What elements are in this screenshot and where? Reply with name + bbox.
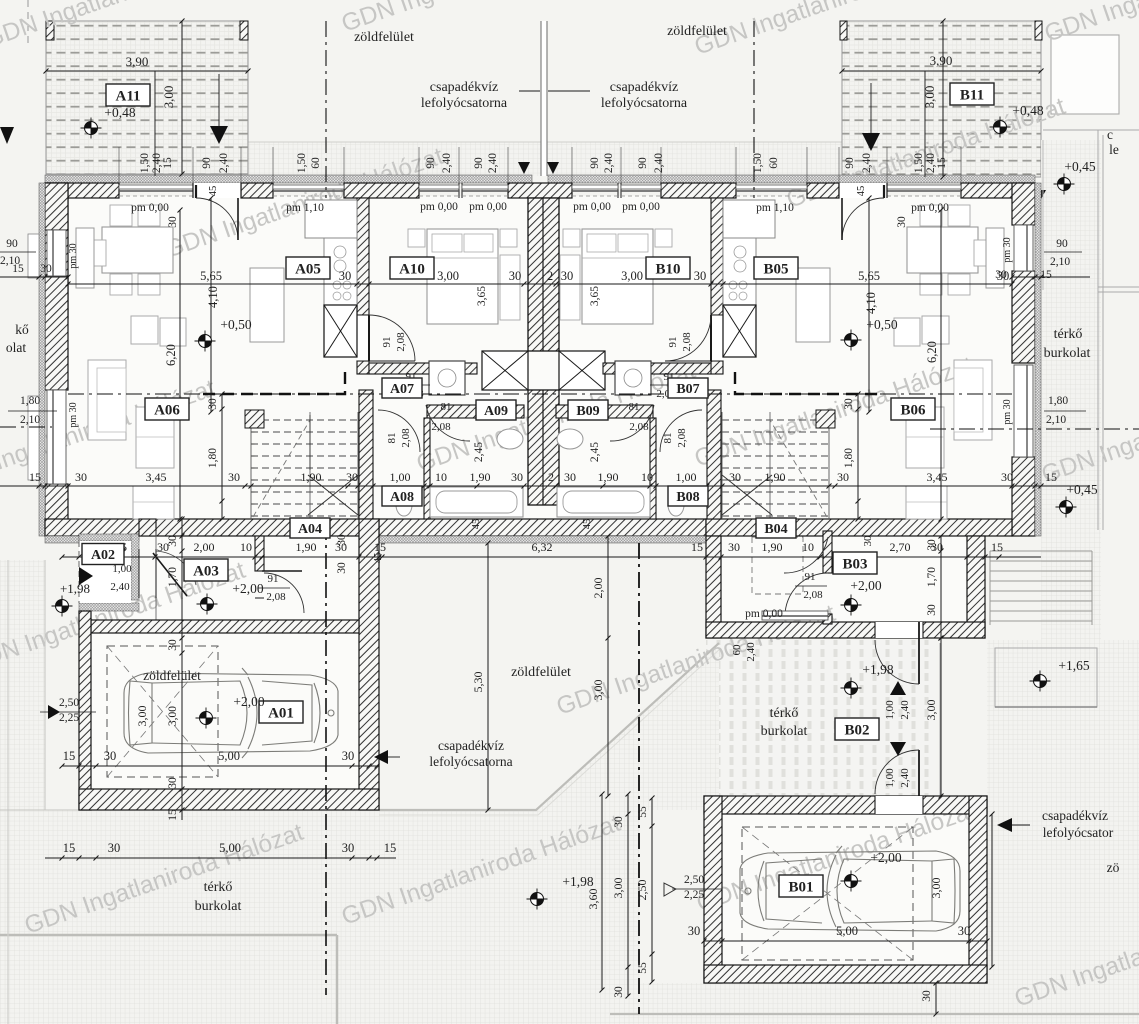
svg-text:3,65: 3,65 xyxy=(476,286,488,306)
svg-text:30: 30 xyxy=(108,841,121,855)
bathtub B09 xyxy=(557,487,650,517)
stairs cross B xyxy=(722,475,772,515)
paving between wings lower xyxy=(380,643,719,810)
garage B01 door top xyxy=(875,796,923,814)
svg-text:30: 30 xyxy=(958,924,971,938)
bottom right edge line xyxy=(610,1013,1139,1015)
dim vertical x=488 5,30 xyxy=(487,543,489,810)
kitchen wall B05 xyxy=(711,198,723,315)
svg-text:1,90: 1,90 xyxy=(762,540,783,554)
svg-text:+0,45: +0,45 xyxy=(1066,482,1097,497)
svg-text:90: 90 xyxy=(637,157,649,169)
marker A01 xyxy=(196,708,217,729)
window W8 B06 top xyxy=(887,185,961,189)
bottom paving area xyxy=(0,810,640,1024)
marker A03 xyxy=(197,594,218,615)
garage B01 canopy dashed xyxy=(742,827,913,960)
svg-text:A04: A04 xyxy=(298,522,322,537)
room label B10 xyxy=(646,257,690,279)
svg-text:81: 81 xyxy=(629,401,640,413)
room label A08 xyxy=(382,486,422,506)
svg-text:zöldfelület: zöldfelület xyxy=(143,668,201,683)
svg-text:3,45: 3,45 xyxy=(146,470,167,484)
marker B02 xyxy=(841,678,862,699)
svg-text:2,40: 2,40 xyxy=(899,700,911,720)
leader csapadekviz A xyxy=(519,90,540,92)
svg-text:30: 30 xyxy=(167,639,179,651)
kitchen counter B05 xyxy=(723,200,775,238)
svg-text:+0,50: +0,50 xyxy=(866,317,897,332)
room label A02 xyxy=(82,544,124,565)
svg-text:30: 30 xyxy=(40,263,52,275)
svg-text:2,08: 2,08 xyxy=(629,421,649,433)
dining table B06 xyxy=(907,227,978,273)
marker center bottom xyxy=(527,889,548,910)
window W4 A10 top xyxy=(462,185,508,189)
svg-text:91: 91 xyxy=(667,337,679,348)
svg-text:2,08: 2,08 xyxy=(400,428,412,448)
svg-text:3,00: 3,00 xyxy=(135,706,149,727)
svg-text:lefolyócsatorna: lefolyócsatorna xyxy=(429,754,512,769)
svg-text:30: 30 xyxy=(167,535,179,547)
door A09 xyxy=(426,405,470,441)
svg-text:1,80: 1,80 xyxy=(20,395,40,407)
wall A03 left jamb xyxy=(139,519,156,536)
svg-text:30: 30 xyxy=(694,269,707,283)
svg-text:2,10: 2,10 xyxy=(20,414,40,426)
svg-text:15: 15 xyxy=(1040,269,1052,281)
svg-text:csapadékvíz: csapadékvíz xyxy=(610,80,678,95)
garage B01 walls xyxy=(704,796,987,814)
svg-text:2,40: 2,40 xyxy=(899,768,911,788)
sideboard A xyxy=(250,268,284,342)
B02 path texture xyxy=(706,640,936,796)
svg-text:5,00: 5,00 xyxy=(219,841,241,855)
svg-text:B04: B04 xyxy=(764,522,787,537)
svg-text:pm 0,00: pm 0,00 xyxy=(911,202,949,214)
B03 bottom wall xyxy=(706,622,985,638)
svg-text:+0,48: +0,48 xyxy=(1012,103,1043,118)
svg-text:1,90: 1,90 xyxy=(301,470,322,484)
svg-text:30: 30 xyxy=(339,269,352,283)
bed A10 xyxy=(427,229,498,324)
svg-text:90: 90 xyxy=(6,238,18,250)
marker terrace 165 xyxy=(1030,671,1051,692)
wing B03 interior xyxy=(718,533,970,625)
left edge vertical line xyxy=(7,560,9,1024)
svg-text:15: 15 xyxy=(374,540,386,554)
room label B07 xyxy=(668,378,708,398)
svg-text:30: 30 xyxy=(564,470,576,484)
bathtub A09 xyxy=(430,487,523,517)
garage A top wall xyxy=(91,620,359,633)
svg-text:15: 15 xyxy=(1045,470,1057,484)
svg-text:15: 15 xyxy=(162,157,174,169)
room label A10 xyxy=(390,257,434,279)
svg-text:90: 90 xyxy=(473,157,485,169)
svg-text:3,65: 3,65 xyxy=(589,286,601,306)
top wall window dim vlines xyxy=(118,147,120,183)
svg-text:térkő: térkő xyxy=(770,706,799,721)
corner spout triangle right xyxy=(1034,190,1046,201)
svg-text:B08: B08 xyxy=(676,490,699,505)
B03 left wall xyxy=(706,536,721,638)
svg-text:3,00: 3,00 xyxy=(161,86,176,109)
svg-text:1,80: 1,80 xyxy=(843,448,855,468)
svg-text:2,45: 2,45 xyxy=(473,442,485,462)
svg-text:A06: A06 xyxy=(154,402,180,418)
dim garage A y=858 xyxy=(45,857,396,859)
svg-text:30: 30 xyxy=(613,986,625,998)
svg-text:pm 30: pm 30 xyxy=(1002,399,1013,424)
pillar B xyxy=(816,410,835,428)
stair arrow line A xyxy=(309,415,311,470)
wardrobe B03 dashed xyxy=(752,537,803,594)
svg-text:pm 1,10: pm 1,10 xyxy=(756,202,794,214)
svg-text:lefolyócsatorna: lefolyócsatorna xyxy=(421,96,508,111)
svg-text:30: 30 xyxy=(509,269,522,283)
right boundary lines xyxy=(1042,140,1044,290)
svg-text:45: 45 xyxy=(471,519,482,530)
B03 partition xyxy=(823,531,832,573)
svg-text:2,00: 2,00 xyxy=(194,540,215,554)
door A08 xyxy=(378,410,420,452)
svg-text:90: 90 xyxy=(844,157,856,169)
svg-text:+0,48: +0,48 xyxy=(104,105,135,120)
dim chain y=557 xyxy=(62,556,1041,558)
svg-text:15: 15 xyxy=(991,540,1003,554)
svg-text:+2,00: +2,00 xyxy=(870,850,901,865)
svg-text:B06: B06 xyxy=(900,402,926,418)
marker B living xyxy=(841,330,862,351)
svg-text:91: 91 xyxy=(268,573,279,585)
svg-text:2,70: 2,70 xyxy=(890,540,911,554)
svg-text:3,00: 3,00 xyxy=(437,269,459,283)
svg-text:térkő: térkő xyxy=(1054,327,1083,342)
room label B05 xyxy=(754,257,798,279)
svg-text:81: 81 xyxy=(441,401,452,413)
insulation strip bottom center xyxy=(379,536,706,543)
dim 30/1,80 stairs side A xyxy=(221,394,223,519)
svg-text:3,00: 3,00 xyxy=(922,86,937,109)
svg-text:30: 30 xyxy=(729,470,741,484)
svg-text:15: 15 xyxy=(384,841,397,855)
room label B04 xyxy=(756,518,796,538)
door B08 xyxy=(660,410,702,452)
leader csapadekviz mid A xyxy=(388,756,400,758)
dim terrace B11 3,90 xyxy=(842,70,1041,72)
axis horizontal y=429 right xyxy=(930,428,1139,430)
svg-text:B01: B01 xyxy=(788,879,813,895)
svg-text:A05: A05 xyxy=(295,261,321,277)
svg-text:pm 0,00: pm 0,00 xyxy=(622,201,660,213)
room label A05 xyxy=(286,257,330,279)
svg-text:pm 0,00: pm 0,00 xyxy=(745,608,783,620)
svg-text:2,08: 2,08 xyxy=(681,332,693,352)
insulation strip right wall xyxy=(1035,183,1041,536)
shelf A06 xyxy=(133,486,174,519)
svg-text:2,00: 2,00 xyxy=(591,578,605,599)
car in garage B01 xyxy=(740,846,960,936)
wing A right wall xyxy=(359,519,379,810)
terrace +1,65 right xyxy=(995,648,1097,707)
insulation strip bottom left xyxy=(45,536,79,543)
right neighbour outline top xyxy=(1051,35,1119,114)
party wall center xyxy=(528,198,559,351)
svg-text:zöldfelület: zöldfelület xyxy=(667,24,727,39)
svg-text:30: 30 xyxy=(837,470,849,484)
terrace B11 tiled xyxy=(842,21,1041,177)
svg-text:A01: A01 xyxy=(268,705,294,721)
shower B07 xyxy=(615,361,651,395)
left outer wall xyxy=(45,183,68,318)
svg-text:10: 10 xyxy=(802,540,814,554)
svg-text:csapadékvíz: csapadékvíz xyxy=(438,738,504,753)
svg-text:2,50: 2,50 xyxy=(684,874,704,886)
svg-text:pm 0,00: pm 0,00 xyxy=(573,201,611,213)
svg-text:2,40: 2,40 xyxy=(861,153,873,173)
dashed boundary top left xyxy=(27,0,29,45)
svg-text:burkolat: burkolat xyxy=(1044,346,1091,361)
room label A07 xyxy=(382,378,422,398)
door B10 xyxy=(711,315,723,361)
svg-text:kő: kő xyxy=(15,322,29,337)
marker right mid xyxy=(1056,497,1077,518)
door B09 xyxy=(610,405,654,441)
svg-text:2,08: 2,08 xyxy=(395,332,407,352)
svg-text:1,70: 1,70 xyxy=(926,567,938,587)
left strip inner boundary xyxy=(44,560,46,810)
svg-text:30: 30 xyxy=(862,535,874,547)
svg-text:1,00: 1,00 xyxy=(884,768,896,788)
marker B11 xyxy=(990,117,1011,138)
svg-text:15: 15 xyxy=(63,749,76,763)
svg-text:45: 45 xyxy=(582,519,593,530)
garage A canopy dashed xyxy=(107,646,218,777)
B03 window bottom xyxy=(762,611,828,620)
svg-text:burkolat: burkolat xyxy=(195,899,242,914)
svg-text:30: 30 xyxy=(75,470,87,484)
svg-text:pm 30: pm 30 xyxy=(1002,237,1013,262)
svg-text:1,80: 1,80 xyxy=(207,448,219,468)
svg-text:30: 30 xyxy=(688,924,701,938)
A03 left edge lines xyxy=(155,531,157,549)
dim garage A y=766 xyxy=(62,765,379,767)
svg-text:zöldfelület: zöldfelület xyxy=(511,665,571,680)
armchairs B06 xyxy=(922,316,949,344)
svg-text:térkő: térkő xyxy=(204,880,233,895)
svg-text:5,00: 5,00 xyxy=(836,924,858,938)
svg-text:91: 91 xyxy=(381,337,393,348)
svg-text:+2,00: +2,00 xyxy=(232,581,263,596)
svg-text:1,50: 1,50 xyxy=(752,153,764,173)
marker porch A02 xyxy=(52,596,73,617)
dim terrace A11 3,90 xyxy=(46,70,248,72)
window left A06 lower xyxy=(47,390,66,484)
svg-text:2,08: 2,08 xyxy=(676,428,688,448)
svg-text:lefolyócsatorna: lefolyócsatorna xyxy=(601,96,688,111)
room label A06 xyxy=(145,398,189,420)
room label B09 xyxy=(568,400,608,420)
svg-text:30: 30 xyxy=(896,216,908,228)
room label A04 xyxy=(290,518,330,538)
armchairs A06 xyxy=(131,316,158,344)
svg-text:3,00: 3,00 xyxy=(924,700,938,721)
sideboard B xyxy=(796,268,830,342)
svg-text:2,40: 2,40 xyxy=(745,642,757,662)
window W1 A06 top xyxy=(119,185,193,189)
wall B07/B09 xyxy=(556,405,653,418)
shaft A at party wall xyxy=(482,351,528,390)
room label B03 xyxy=(833,552,877,574)
svg-text:A02: A02 xyxy=(91,548,115,563)
dim chain bottom right x=628 xyxy=(627,794,629,996)
stairs A xyxy=(251,420,358,516)
left side paving strip xyxy=(0,560,45,1024)
svg-text:A07: A07 xyxy=(390,382,414,397)
door A10 xyxy=(357,315,369,361)
svg-text:3,00: 3,00 xyxy=(591,680,605,701)
axis vertical x=639 bottom xyxy=(638,543,640,1014)
svg-text:2,40: 2,40 xyxy=(603,153,615,173)
svg-text:10: 10 xyxy=(435,470,447,484)
dining table A06 xyxy=(102,227,173,273)
building interior main band xyxy=(62,196,1014,521)
door A03-corridor xyxy=(255,570,264,572)
vent shaft kitchen B xyxy=(723,305,756,357)
svg-text:B07: B07 xyxy=(676,382,699,397)
washbasin B09 xyxy=(557,429,583,449)
svg-text:2,40: 2,40 xyxy=(653,153,665,173)
svg-text:+1,98: +1,98 xyxy=(562,874,593,889)
svg-text:+1,65: +1,65 xyxy=(1058,658,1089,673)
stairs diagonal A xyxy=(253,420,310,517)
svg-text:1,90: 1,90 xyxy=(765,470,786,484)
svg-text:30: 30 xyxy=(228,470,240,484)
svg-text:30: 30 xyxy=(728,540,740,554)
svg-text:10: 10 xyxy=(641,470,653,484)
svg-text:3,00: 3,00 xyxy=(929,878,943,899)
insulation strip left wall xyxy=(39,183,45,536)
room label B11 xyxy=(950,83,994,105)
window right B06 upper xyxy=(1014,225,1033,271)
svg-text:olat: olat xyxy=(6,340,26,355)
arrows B02 path xyxy=(890,681,906,695)
dim line terrace A11 x=155 xyxy=(154,71,156,176)
cupboard B06 wall xyxy=(986,228,1004,288)
svg-text:5,30: 5,30 xyxy=(471,672,485,693)
pillar A xyxy=(245,410,264,428)
dim chain bottom right x=652 xyxy=(651,798,653,982)
svg-text:91: 91 xyxy=(805,571,816,583)
wall A03 right with door xyxy=(255,536,264,571)
nightstand B10 xyxy=(655,229,672,247)
dim 4,10 B xyxy=(868,198,870,412)
svg-text:+2,00: +2,00 xyxy=(233,694,264,709)
svg-text:1,50: 1,50 xyxy=(139,153,151,173)
window W6 B10 top xyxy=(621,185,661,189)
svg-text:1,70: 1,70 xyxy=(167,567,179,587)
marker right top xyxy=(1054,174,1075,195)
svg-text:81: 81 xyxy=(662,433,674,444)
nightstand A10 xyxy=(408,229,425,247)
room label A11 xyxy=(106,84,150,106)
dim vertical x=608 center xyxy=(607,536,609,796)
svg-text:90: 90 xyxy=(1056,238,1068,250)
svg-text:pm 0,00: pm 0,00 xyxy=(131,202,169,214)
entry door A opening xyxy=(193,183,241,198)
svg-text:45: 45 xyxy=(856,186,867,197)
wall beside stairs A xyxy=(359,390,373,519)
dim garage B01 bottom y=941 xyxy=(704,940,987,942)
svg-text:4,10: 4,10 xyxy=(864,292,878,314)
window W5 B10 top xyxy=(572,185,618,189)
svg-text:15: 15 xyxy=(12,263,24,275)
porch A02 interior xyxy=(79,541,131,603)
svg-text:3,90: 3,90 xyxy=(126,54,149,69)
marker A living xyxy=(195,331,216,352)
svg-text:30: 30 xyxy=(336,534,348,546)
wardrobe A10 xyxy=(500,255,520,320)
car in garage A01 xyxy=(124,668,338,758)
svg-text:+0,50: +0,50 xyxy=(220,317,251,332)
svg-text:1,00: 1,00 xyxy=(390,470,411,484)
svg-text:2,08: 2,08 xyxy=(266,591,286,603)
rainwater channel center vertical xyxy=(541,21,547,176)
wall A08 side xyxy=(424,418,430,519)
window right B06 lower xyxy=(1014,365,1033,457)
garage B01 interior xyxy=(719,811,972,968)
svg-text:2,40: 2,40 xyxy=(110,581,130,593)
svg-text:45: 45 xyxy=(208,186,219,197)
wall B08 side xyxy=(650,418,656,519)
entry arrow A02 xyxy=(79,567,93,585)
bed B10 xyxy=(582,229,653,324)
svg-text:pm 0,00: pm 0,00 xyxy=(420,201,458,213)
svg-text:1,00: 1,00 xyxy=(884,700,896,720)
svg-text:45: 45 xyxy=(373,553,384,564)
svg-text:burkolat: burkolat xyxy=(761,724,808,739)
svg-text:+2,00: +2,00 xyxy=(850,578,881,593)
dim 6,20 A xyxy=(179,210,181,519)
svg-text:30: 30 xyxy=(1001,470,1013,484)
svg-text:pm 30: pm 30 xyxy=(68,243,79,268)
svg-text:B03: B03 xyxy=(842,556,867,572)
marker A11 xyxy=(81,118,102,139)
shaft B at party wall xyxy=(559,351,605,390)
window W7 B05 top xyxy=(736,185,807,189)
dim 6,20 B xyxy=(940,210,942,519)
svg-text:2,50: 2,50 xyxy=(635,880,649,901)
axis horizontal y=394 xyxy=(68,393,1012,395)
door into B03 xyxy=(784,537,828,573)
toilet B08 xyxy=(668,494,684,516)
svg-text:6,20: 6,20 xyxy=(925,341,939,363)
right side paving band xyxy=(1041,140,1101,1024)
dim chain y=486 xyxy=(0,485,1090,487)
svg-text:6,20: 6,20 xyxy=(164,344,178,366)
svg-text:A03: A03 xyxy=(193,563,219,579)
B03 door bottom xyxy=(875,622,923,638)
window left A06 upper xyxy=(47,230,66,276)
svg-text:30: 30 xyxy=(342,841,355,855)
svg-text:30: 30 xyxy=(167,216,179,228)
dim 4,10 A xyxy=(210,198,212,412)
svg-text:30: 30 xyxy=(843,398,855,410)
room label B02 xyxy=(835,718,879,740)
window W2 A05 top xyxy=(273,185,344,189)
leader csapadekviz bottom right xyxy=(1012,824,1030,826)
